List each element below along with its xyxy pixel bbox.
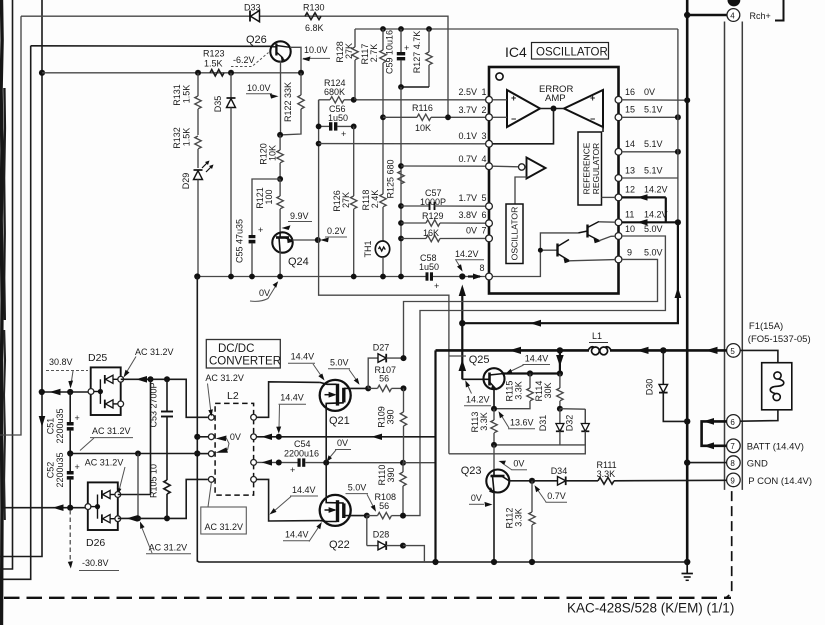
svg-text:0.7V: 0.7V [458, 154, 477, 164]
svg-text:14.4V: 14.4V [292, 485, 316, 495]
svg-text:+: + [258, 225, 263, 235]
MOSFET Q21 [320, 380, 351, 427]
label BATT [747, 442, 804, 453]
annotation 14.2V at Q25 emitter [464, 380, 491, 406]
capacitor C59 [385, 26, 410, 87]
label ERROR AMP [539, 84, 573, 104]
svg-text:+: + [404, 43, 409, 53]
svg-text:3.3K: 3.3K [514, 508, 524, 527]
annotation AC 31.2V boxed [201, 483, 247, 534]
resistor R112 [505, 481, 536, 565]
svg-text:5.0V: 5.0V [644, 224, 663, 234]
wire 14.2V feed up to pin8 rail [459, 285, 466, 324]
wire Q23 emitter down [491, 492, 497, 565]
node D35 top [228, 70, 234, 76]
transformer L2 [197, 390, 256, 495]
resistor R118 [361, 117, 386, 241]
svg-text:+: + [341, 129, 346, 139]
annotation AC 31.2V above D25 [124, 347, 174, 378]
svg-text:D27: D27 [373, 343, 390, 353]
svg-text:R123: R123 [203, 49, 225, 59]
svg-text:680K: 680K [324, 87, 345, 97]
svg-text:1: 1 [482, 87, 487, 97]
svg-text:Q26: Q26 [246, 34, 267, 46]
svg-text:D35: D35 [213, 96, 223, 113]
capacitor C58 [419, 253, 439, 291]
svg-text:16K: 16K [423, 228, 439, 238]
voltage labels IC4 right pins [625, 87, 668, 258]
bracket Rch [775, 0, 784, 21]
error amp right triangle [564, 90, 603, 127]
transistor Q24 [272, 232, 308, 276]
capacitor C55 branch [235, 179, 281, 277]
svg-text:0.1V: 0.1V [458, 131, 477, 141]
annotation 0V at L2 [216, 432, 241, 453]
node Q24 emitter column [315, 237, 321, 243]
diode D35 [213, 73, 236, 277]
wire C52 tap column [135, 454, 141, 522]
svg-text:2200u35: 2200u35 [55, 408, 65, 443]
wire Q24 drive loop [449, 409, 585, 454]
resistor R108 [367, 492, 406, 519]
svg-text:3.3K: 3.3K [479, 412, 489, 431]
IC4 pin circles left [486, 96, 493, 280]
diode D33 [244, 3, 261, 22]
wire C54 row [257, 459, 298, 465]
annotation 10.0V at R120 rail [246, 83, 279, 99]
DC/DC CONVERTER title box [206, 340, 281, 369]
IC4 pin circles right [615, 96, 622, 262]
wire R123 rail [42, 72, 301, 74]
svg-text:14.4V: 14.4V [525, 354, 549, 364]
resistor R122 [280, 73, 304, 135]
svg-text:27K: 27K [341, 192, 351, 208]
wire pin3 rail [319, 143, 486, 145]
resistor R109 [377, 388, 407, 462]
wire Q21 source node [351, 385, 372, 391]
resistor R125 [386, 159, 405, 198]
svg-text:14.2V: 14.2V [644, 185, 668, 195]
wire R125 column [400, 87, 402, 277]
svg-text:1.5K: 1.5K [204, 59, 223, 69]
wire D26 AC top link [118, 494, 151, 496]
svg-text:9: 9 [627, 248, 632, 258]
svg-text:14.2V: 14.2V [644, 210, 668, 220]
svg-text:-6.2V: -6.2V [233, 55, 255, 65]
svg-text:10K: 10K [268, 145, 278, 161]
wire 14.2V feed down to Q25 [459, 323, 467, 379]
wire D26 AC bottom feed [118, 479, 208, 521]
svg-text:R122 33K: R122 33K [283, 82, 293, 122]
svg-text:2.7K: 2.7K [369, 44, 379, 63]
wire 14.4V mid rail [257, 434, 437, 440]
node R122 top [298, 70, 304, 76]
node 14.2V tee [459, 320, 465, 326]
wire 14.4V riser x436 [432, 350, 438, 565]
transistor Q25 [462, 354, 504, 409]
svg-text:D34: D34 [551, 466, 568, 476]
resistor R128 [335, 29, 358, 100]
wire D28 to bottom rail [403, 546, 424, 562]
svg-text:D33: D33 [244, 3, 261, 13]
svg-text:10.0V: 10.0V [304, 45, 328, 55]
svg-text:14: 14 [625, 139, 635, 149]
svg-text:8: 8 [480, 263, 485, 273]
svg-text:9.9V: 9.9V [290, 211, 309, 221]
svg-text:R130: R130 [303, 3, 325, 13]
svg-text:+: + [434, 281, 439, 291]
resistor R132 [172, 127, 201, 168]
svg-text:6.8K: 6.8K [305, 23, 324, 33]
svg-text:1.5K: 1.5K [182, 128, 192, 147]
resistor R107 [368, 365, 406, 392]
svg-text:C53 2700P: C53 2700P [149, 382, 159, 427]
svg-text:3.7V: 3.7V [458, 105, 477, 115]
svg-text:L1: L1 [592, 331, 602, 341]
transistor T1 internal [579, 222, 616, 244]
svg-text:2: 2 [482, 105, 487, 115]
transistor Q26 [246, 34, 291, 62]
wire pin11 14.2V [622, 219, 681, 225]
annotation 0V below Q24 [250, 281, 278, 301]
svg-text:6: 6 [730, 418, 735, 427]
svg-text:CONVERTER: CONVERTER [209, 356, 281, 368]
resistor 16K (R-pin7) [398, 228, 486, 242]
svg-text:C52: C52 [46, 462, 56, 479]
capacitor C57 [398, 188, 486, 210]
svg-text:14.2V: 14.2V [455, 249, 479, 259]
pin 8 connector [727, 456, 741, 470]
svg-text:Q22: Q22 [329, 539, 350, 551]
svg-text:Q25: Q25 [469, 354, 490, 366]
resistor R121 [255, 179, 283, 233]
node 14.2V feed [459, 273, 465, 279]
svg-text:Q24: Q24 [288, 256, 309, 268]
svg-text:AC 31.2V: AC 31.2V [205, 373, 244, 383]
thermistor TH1 [363, 240, 390, 276]
jumper pins 6-7 BATT [702, 418, 727, 449]
svg-text:14.4V: 14.4V [291, 352, 315, 362]
svg-text:7: 7 [730, 442, 735, 451]
wire feedback column x318 [318, 100, 320, 240]
resistor R126 [332, 126, 357, 276]
wire AC link column [150, 379, 152, 494]
wire Q24 emitter to IC area [319, 240, 449, 454]
svg-text:10K: 10K [415, 123, 431, 133]
diode D31 [538, 409, 564, 445]
svg-text:R129: R129 [422, 211, 444, 221]
svg-text:30K: 30K [543, 382, 553, 398]
wire pin8 internal [492, 233, 578, 277]
capacitor C53 [149, 379, 174, 480]
svg-text:13.6V: 13.6V [510, 418, 534, 428]
wire -30.8V output [3, 504, 88, 511]
wire upper rail y29 [355, 28, 678, 30]
svg-text:3.3K: 3.3K [597, 469, 616, 479]
svg-text:3.8V: 3.8V [458, 210, 477, 220]
transistor T2 internal [538, 240, 615, 264]
annotation 5.0V at Q22 [346, 483, 377, 512]
svg-text:R127 4.7K: R127 4.7K [412, 31, 422, 74]
svg-text:5.0V: 5.0V [348, 483, 367, 493]
svg-text:5.1V: 5.1V [644, 139, 663, 149]
annotation 0.7V [535, 485, 568, 502]
wire 30.8V output [39, 389, 89, 396]
node Q25 base [491, 406, 585, 412]
wire left bus 4 [0, 0, 42, 557]
dashed bottom border [4, 597, 731, 599]
OSCILLATOR block [506, 204, 523, 264]
svg-text:1u50: 1u50 [419, 262, 439, 272]
wire right bus x678 [677, 29, 679, 222]
svg-text:15: 15 [625, 105, 635, 115]
svg-text:P CON (14.4V): P CON (14.4V) [748, 476, 812, 487]
annotation 0.2V [320, 226, 347, 242]
resistor R111 [597, 460, 727, 484]
svg-text:1000P: 1000P [420, 197, 446, 207]
diode D27 [368, 343, 406, 389]
diode D30 [645, 347, 691, 424]
svg-text:4: 4 [482, 154, 487, 164]
svg-text:390: 390 [386, 467, 396, 482]
svg-text:0V: 0V [259, 288, 270, 298]
svg-text:5: 5 [730, 347, 735, 356]
annotation 14.2V at pin8 [455, 249, 484, 280]
svg-text:56: 56 [379, 501, 389, 511]
svg-text:R131: R131 [172, 84, 182, 106]
label P CON [748, 476, 812, 487]
svg-text:D25: D25 [88, 352, 107, 364]
svg-text:1.5K: 1.5K [182, 85, 192, 104]
svg-text:D28: D28 [373, 530, 390, 540]
label GND [747, 459, 768, 470]
svg-text:13: 13 [625, 166, 635, 176]
MOSFET Q22 [320, 495, 351, 551]
wire main ground bus x687 [686, 0, 689, 562]
wire pin16 0V [622, 97, 690, 103]
wire Q24 emitter to column [293, 239, 318, 241]
annotation 14.4V at Q22 gate [283, 522, 322, 542]
svg-text:0V: 0V [230, 432, 241, 442]
svg-text:IC4: IC4 [505, 44, 527, 60]
svg-text:+: + [290, 465, 295, 475]
wire 0V rail [197, 277, 687, 563]
transistor Q23 [461, 445, 510, 494]
capacitor C54 [284, 439, 406, 475]
annotation 0V at Q23 base [499, 459, 528, 471]
svg-text:12: 12 [625, 185, 635, 195]
svg-text:5.0V: 5.0V [330, 358, 349, 368]
resistor R124 [319, 78, 354, 103]
node R121 top [277, 176, 283, 182]
diode D34 [532, 466, 598, 485]
wire 14.2V bus down right [462, 222, 681, 326]
ground symbol [682, 559, 693, 581]
svg-text:4: 4 [730, 11, 735, 20]
svg-text:OSCILLATOR: OSCILLATOR [536, 47, 608, 59]
wire 14.4V L1 rail [436, 347, 727, 354]
svg-text:AC 31.2V: AC 31.2V [135, 347, 174, 357]
svg-text:F1(15A): F1(15A) [749, 321, 783, 332]
resistor R130 [303, 3, 325, 34]
svg-text:0.7V: 0.7V [547, 491, 566, 501]
pin 7 connector [727, 439, 741, 453]
annotation 14.4V at Q21 [288, 352, 325, 381]
node R120 top [277, 132, 283, 138]
svg-text:GND: GND [747, 459, 768, 470]
wire pin8 GND [684, 459, 727, 465]
annotation AC 31.2V at D26 bottom [140, 522, 191, 554]
svg-text:11: 11 [625, 210, 634, 220]
page edge (scan artifact) [1, 0, 5, 625]
svg-text:AC 31.2V: AC 31.2V [92, 426, 131, 436]
svg-text:3.3K: 3.3K [514, 381, 524, 400]
svg-text:2200u16: 2200u16 [284, 449, 319, 459]
svg-text:R125 680: R125 680 [386, 159, 396, 198]
svg-text:Q23: Q23 [461, 465, 482, 477]
wire pin14 5.1V [622, 149, 681, 155]
wire Q25 collector 14.4V [502, 350, 564, 376]
svg-text:3: 3 [482, 131, 487, 141]
svg-text:30.8V: 30.8V [49, 357, 73, 367]
svg-text:0V: 0V [466, 226, 477, 236]
svg-text:−: − [590, 114, 595, 124]
resistor R129 [398, 211, 486, 226]
svg-text:+: + [590, 93, 595, 103]
diode D32 [565, 409, 590, 445]
wire left bus 3 [0, 46, 31, 580]
annotation 0V at C54 [327, 438, 351, 462]
svg-text:BATT (14.4V): BATT (14.4V) [747, 442, 804, 453]
svg-text:14.2V: 14.2V [466, 395, 490, 405]
svg-text:100: 100 [264, 189, 274, 204]
svg-text:14.4V: 14.4V [285, 530, 309, 540]
svg-text:R116: R116 [412, 103, 433, 113]
svg-text:27K: 27K [344, 43, 354, 59]
svg-text:0V: 0V [337, 438, 348, 448]
svg-text:OSCILLATOR: OSCILLATOR [510, 207, 520, 261]
wire L2 sec bottom to Q22 gate [257, 479, 320, 521]
wire Q22 drain up [325, 463, 327, 499]
buffer triangle [492, 158, 545, 205]
svg-text:C51: C51 [46, 418, 56, 435]
svg-text:10.0V: 10.0V [247, 83, 271, 93]
wire L2 sec top to Q21 gate [257, 382, 320, 418]
wire 14.2V link pins 11-12 [665, 197, 667, 222]
wire pin15 5.1V [622, 114, 681, 120]
resistor R131 [172, 73, 201, 135]
svg-text:0V: 0V [471, 493, 482, 503]
svg-text:390: 390 [386, 409, 396, 424]
voltage labels IC4 left pins [458, 87, 486, 273]
inductor L1 [588, 331, 611, 356]
resistor R113 [470, 409, 497, 445]
annotation 30.8V [46, 357, 88, 389]
annotation 14.4V at Q25 [506, 354, 551, 374]
wire Q21 drain down [325, 408, 327, 463]
wire pin4 rail [401, 165, 486, 167]
wire left bus 2 [0, 16, 21, 435]
wire pin1 rail [351, 97, 486, 103]
annotation 0V at Q23 emitter [469, 493, 493, 507]
svg-text:+: + [511, 93, 516, 103]
annotation -6.2V [231, 53, 269, 67]
wire top rail to pin2 [21, 16, 448, 117]
svg-text:−: − [511, 114, 516, 124]
annotation AC 31.2V at L2 pin4 [270, 485, 319, 515]
svg-text:AC 31.2V: AC 31.2V [149, 543, 188, 553]
node error amp output [492, 106, 564, 144]
node L1-Q25 branch [557, 347, 563, 353]
wire pin8 rail [194, 273, 486, 279]
resistor R114 [534, 374, 563, 409]
svg-text:Rch+: Rch+ [750, 11, 771, 21]
resistor R127 [412, 26, 432, 87]
svg-text:D32: D32 [565, 415, 575, 432]
pin 9 connector [727, 473, 741, 487]
svg-text:5.0V: 5.0V [644, 248, 663, 258]
capacitor C56 [316, 100, 357, 139]
connector strip [725, 22, 743, 490]
pin 6 connector [727, 415, 741, 429]
svg-text:16: 16 [625, 87, 635, 97]
svg-text:AC 31.2V: AC 31.2V [205, 522, 244, 532]
resistor R120 [259, 135, 284, 179]
resistor R116 [380, 103, 486, 133]
svg-text:1.7V: 1.7V [458, 193, 477, 203]
resistor R110 [377, 463, 406, 516]
diode D28 [367, 516, 406, 550]
svg-text:Q21: Q21 [329, 415, 350, 427]
wire C54 row to 14.4V bus [403, 462, 436, 464]
wire Q25 box fragment [449, 355, 466, 357]
svg-text:8: 8 [730, 459, 735, 468]
svg-text:TH1: TH1 [363, 240, 373, 257]
wire pin10 5.0V to Q22 sense [404, 236, 665, 516]
node on bus 4 at R123 feed [39, 70, 46, 427]
svg-text:L2: L2 [227, 390, 239, 402]
resistor R115 [494, 374, 533, 409]
svg-text:KAC-428S/528 (K/EM) (1/1): KAC-428S/528 (K/EM) (1/1) [567, 601, 734, 616]
svg-text:2.5V: 2.5V [458, 87, 477, 97]
svg-text:C54: C54 [294, 439, 311, 449]
annotation 10.0V right of Q26 [302, 45, 330, 61]
wire Q26 emitter down [280, 61, 282, 135]
svg-text:AC 31.2V: AC 31.2V [85, 458, 124, 468]
svg-text:+: + [75, 413, 80, 423]
svg-text:0V: 0V [644, 87, 655, 97]
annotation 5.0V at Q21 [328, 358, 360, 385]
annotation 13.6V [499, 411, 536, 429]
annotation 9.9V [282, 211, 313, 230]
svg-text:+: + [75, 462, 80, 472]
resistor R117 [360, 26, 386, 117]
svg-text:1u50: 1u50 [328, 113, 348, 123]
wire base rail y445 [491, 442, 585, 448]
dashed PCON boundary [726, 491, 732, 598]
annotation AC 31.2V at D26 top [85, 458, 125, 495]
svg-text:7: 7 [482, 226, 487, 236]
svg-text:56: 56 [379, 374, 389, 384]
svg-text:D30: D30 [645, 379, 655, 396]
annotation -30.8V [68, 510, 119, 571]
svg-text:9: 9 [730, 476, 735, 485]
label sheet title [567, 601, 734, 616]
wire Q26 collector right elbow [290, 47, 301, 73]
svg-text:(FO5-1537-05): (FO5-1537-05) [748, 334, 811, 345]
svg-text:10: 10 [625, 224, 635, 234]
wire left bus 1 [0, 0, 13, 569]
